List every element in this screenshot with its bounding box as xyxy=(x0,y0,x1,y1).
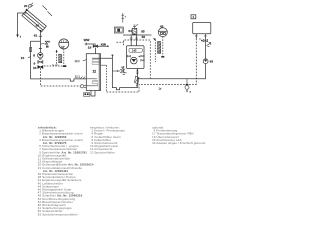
collector label 60 xyxy=(36,24,40,28)
valve 19 cold water xyxy=(88,45,98,50)
svg-text:1x: 1x xyxy=(159,87,162,91)
dots on return inside box xyxy=(136,70,139,75)
small sensor circle at tank lower coil xyxy=(80,85,87,88)
boiler label box 1 xyxy=(191,15,196,19)
dashed enclosure around divicon xyxy=(117,40,151,78)
vent flag symbol xyxy=(207,43,211,47)
top coil 12.2 xyxy=(92,60,100,65)
sensor 12.2 xyxy=(75,59,87,63)
solar collector panel xyxy=(21,9,47,32)
svg-text:9: 9 xyxy=(34,61,36,65)
frame return line left xyxy=(31,41,87,81)
strainer on frame line xyxy=(30,47,32,51)
tank sensor stub to dashed xyxy=(101,64,107,66)
svg-text:7: 7 xyxy=(20,35,22,39)
junction tick above pump xyxy=(39,47,42,49)
air vent valve cluster xyxy=(40,41,50,48)
svg-text:60: 60 xyxy=(36,24,40,28)
open bowtie valve 9 xyxy=(34,61,43,66)
dashed capillary from controller xyxy=(57,49,64,65)
immersion controller circle 17 xyxy=(59,39,69,49)
svg-text:17: 17 xyxy=(61,45,65,49)
pump label xyxy=(33,53,35,57)
return line to boiler side xyxy=(137,64,205,79)
svg-text:64: 64 xyxy=(128,29,132,33)
arrow on left dashed right assembly xyxy=(153,38,156,40)
flow indicator flag xyxy=(135,76,140,86)
solar divicon box xyxy=(127,46,145,69)
sun ray strokes xyxy=(43,6,53,17)
main pipe dashed lower xyxy=(40,68,80,86)
boiler return dashed xyxy=(195,34,197,39)
connection box with terminals xyxy=(84,93,91,97)
collector flow line with arrow (left) xyxy=(16,13,27,39)
right sensor tip xyxy=(161,56,164,58)
bold label 64 xyxy=(128,29,132,33)
svg-text:56: 56 xyxy=(142,35,146,39)
union tick on pipe xyxy=(39,35,42,37)
svg-text:63: 63 xyxy=(210,60,214,64)
black check valve 10 xyxy=(33,66,43,70)
divicon right marks xyxy=(139,55,145,61)
gauge plate 143 xyxy=(129,48,142,52)
drain valve on return xyxy=(185,79,192,94)
svg-text:KW: KW xyxy=(101,43,106,47)
svg-text:63 Speichertemperaturfühler: 63 Speichertemperaturfühler xyxy=(38,212,78,216)
right controller circle 65 xyxy=(158,25,167,37)
legend column 3 xyxy=(152,125,205,145)
vent symbol top middle xyxy=(122,13,126,23)
dashed sensor stub right of valve xyxy=(44,65,63,67)
svg-text:19: 19 xyxy=(88,45,92,49)
pipes into pump box xyxy=(123,35,152,46)
sensor 12.1 marks before tank xyxy=(75,74,85,78)
KW cold water line xyxy=(98,43,109,48)
svg-text:61: 61 xyxy=(34,34,38,38)
svg-text:30 Adapter Abgas / Frischluft: 30 Adapter Abgas / Frischluft getrennt xyxy=(152,141,205,145)
small L pipe right of tank xyxy=(123,66,127,75)
label 61 xyxy=(34,34,38,38)
svg-text:12.2: 12.2 xyxy=(75,59,81,63)
label 10 on frame xyxy=(21,56,31,60)
svg-text:12: 12 xyxy=(93,70,97,74)
divicon left valve xyxy=(127,55,130,57)
lower coil 12.1 xyxy=(86,79,97,86)
air separator cylinder xyxy=(132,24,138,35)
collector sensor label 20 xyxy=(24,4,28,8)
dashed capillaries right xyxy=(155,37,163,62)
svg-text:55: 55 xyxy=(141,30,145,34)
dashed cable bottom run xyxy=(107,85,197,92)
coil to solar pipe out xyxy=(92,58,137,90)
junction dot xyxy=(112,55,114,56)
boiler xyxy=(193,22,211,33)
pump 8 (solar circuit pump) xyxy=(38,53,43,58)
storage tank 12 xyxy=(86,54,100,91)
ticks below boiler xyxy=(195,35,207,37)
tick on dashed stub xyxy=(53,64,55,66)
svg-text:13 Speicherfühler: 13 Speicherfühler xyxy=(90,150,115,154)
legend column 1 xyxy=(38,125,94,216)
wire collector down pipe xyxy=(39,31,41,53)
svg-text:12.1: 12.1 xyxy=(75,74,81,78)
arrow on left dashed xyxy=(56,50,58,52)
heating element U below tank xyxy=(91,91,95,96)
svg-text:143: 143 xyxy=(132,49,137,53)
svg-text:20: 20 xyxy=(24,4,28,8)
svg-text:WW: WW xyxy=(84,38,90,42)
collector temperature sensor symbol xyxy=(28,3,33,9)
svg-text:a: a xyxy=(190,90,192,93)
sensor tip marks xyxy=(63,65,66,67)
tick below pump xyxy=(39,58,42,60)
svg-text:10: 10 xyxy=(21,56,25,60)
pump 64 divicon xyxy=(131,57,138,64)
svg-text:65: 65 xyxy=(160,25,164,29)
svg-text:10: 10 xyxy=(33,66,37,70)
WW outlet line xyxy=(86,44,95,54)
svg-text:8: 8 xyxy=(33,53,35,57)
boiler flow pipe xyxy=(205,34,207,59)
legend column 2 xyxy=(90,125,125,154)
sensor pocket hatched xyxy=(59,54,62,63)
valve 11 with dots xyxy=(199,38,207,41)
bold label 56 xyxy=(142,35,146,39)
tank inner wall xyxy=(98,54,100,91)
controller box xyxy=(114,27,123,33)
fill valve with cross xyxy=(112,67,124,73)
sensor pocket hatched right xyxy=(158,42,161,54)
bold label 55 xyxy=(141,30,145,34)
tank label 12 xyxy=(93,70,97,74)
pump 63 boiler circuit xyxy=(203,59,213,64)
